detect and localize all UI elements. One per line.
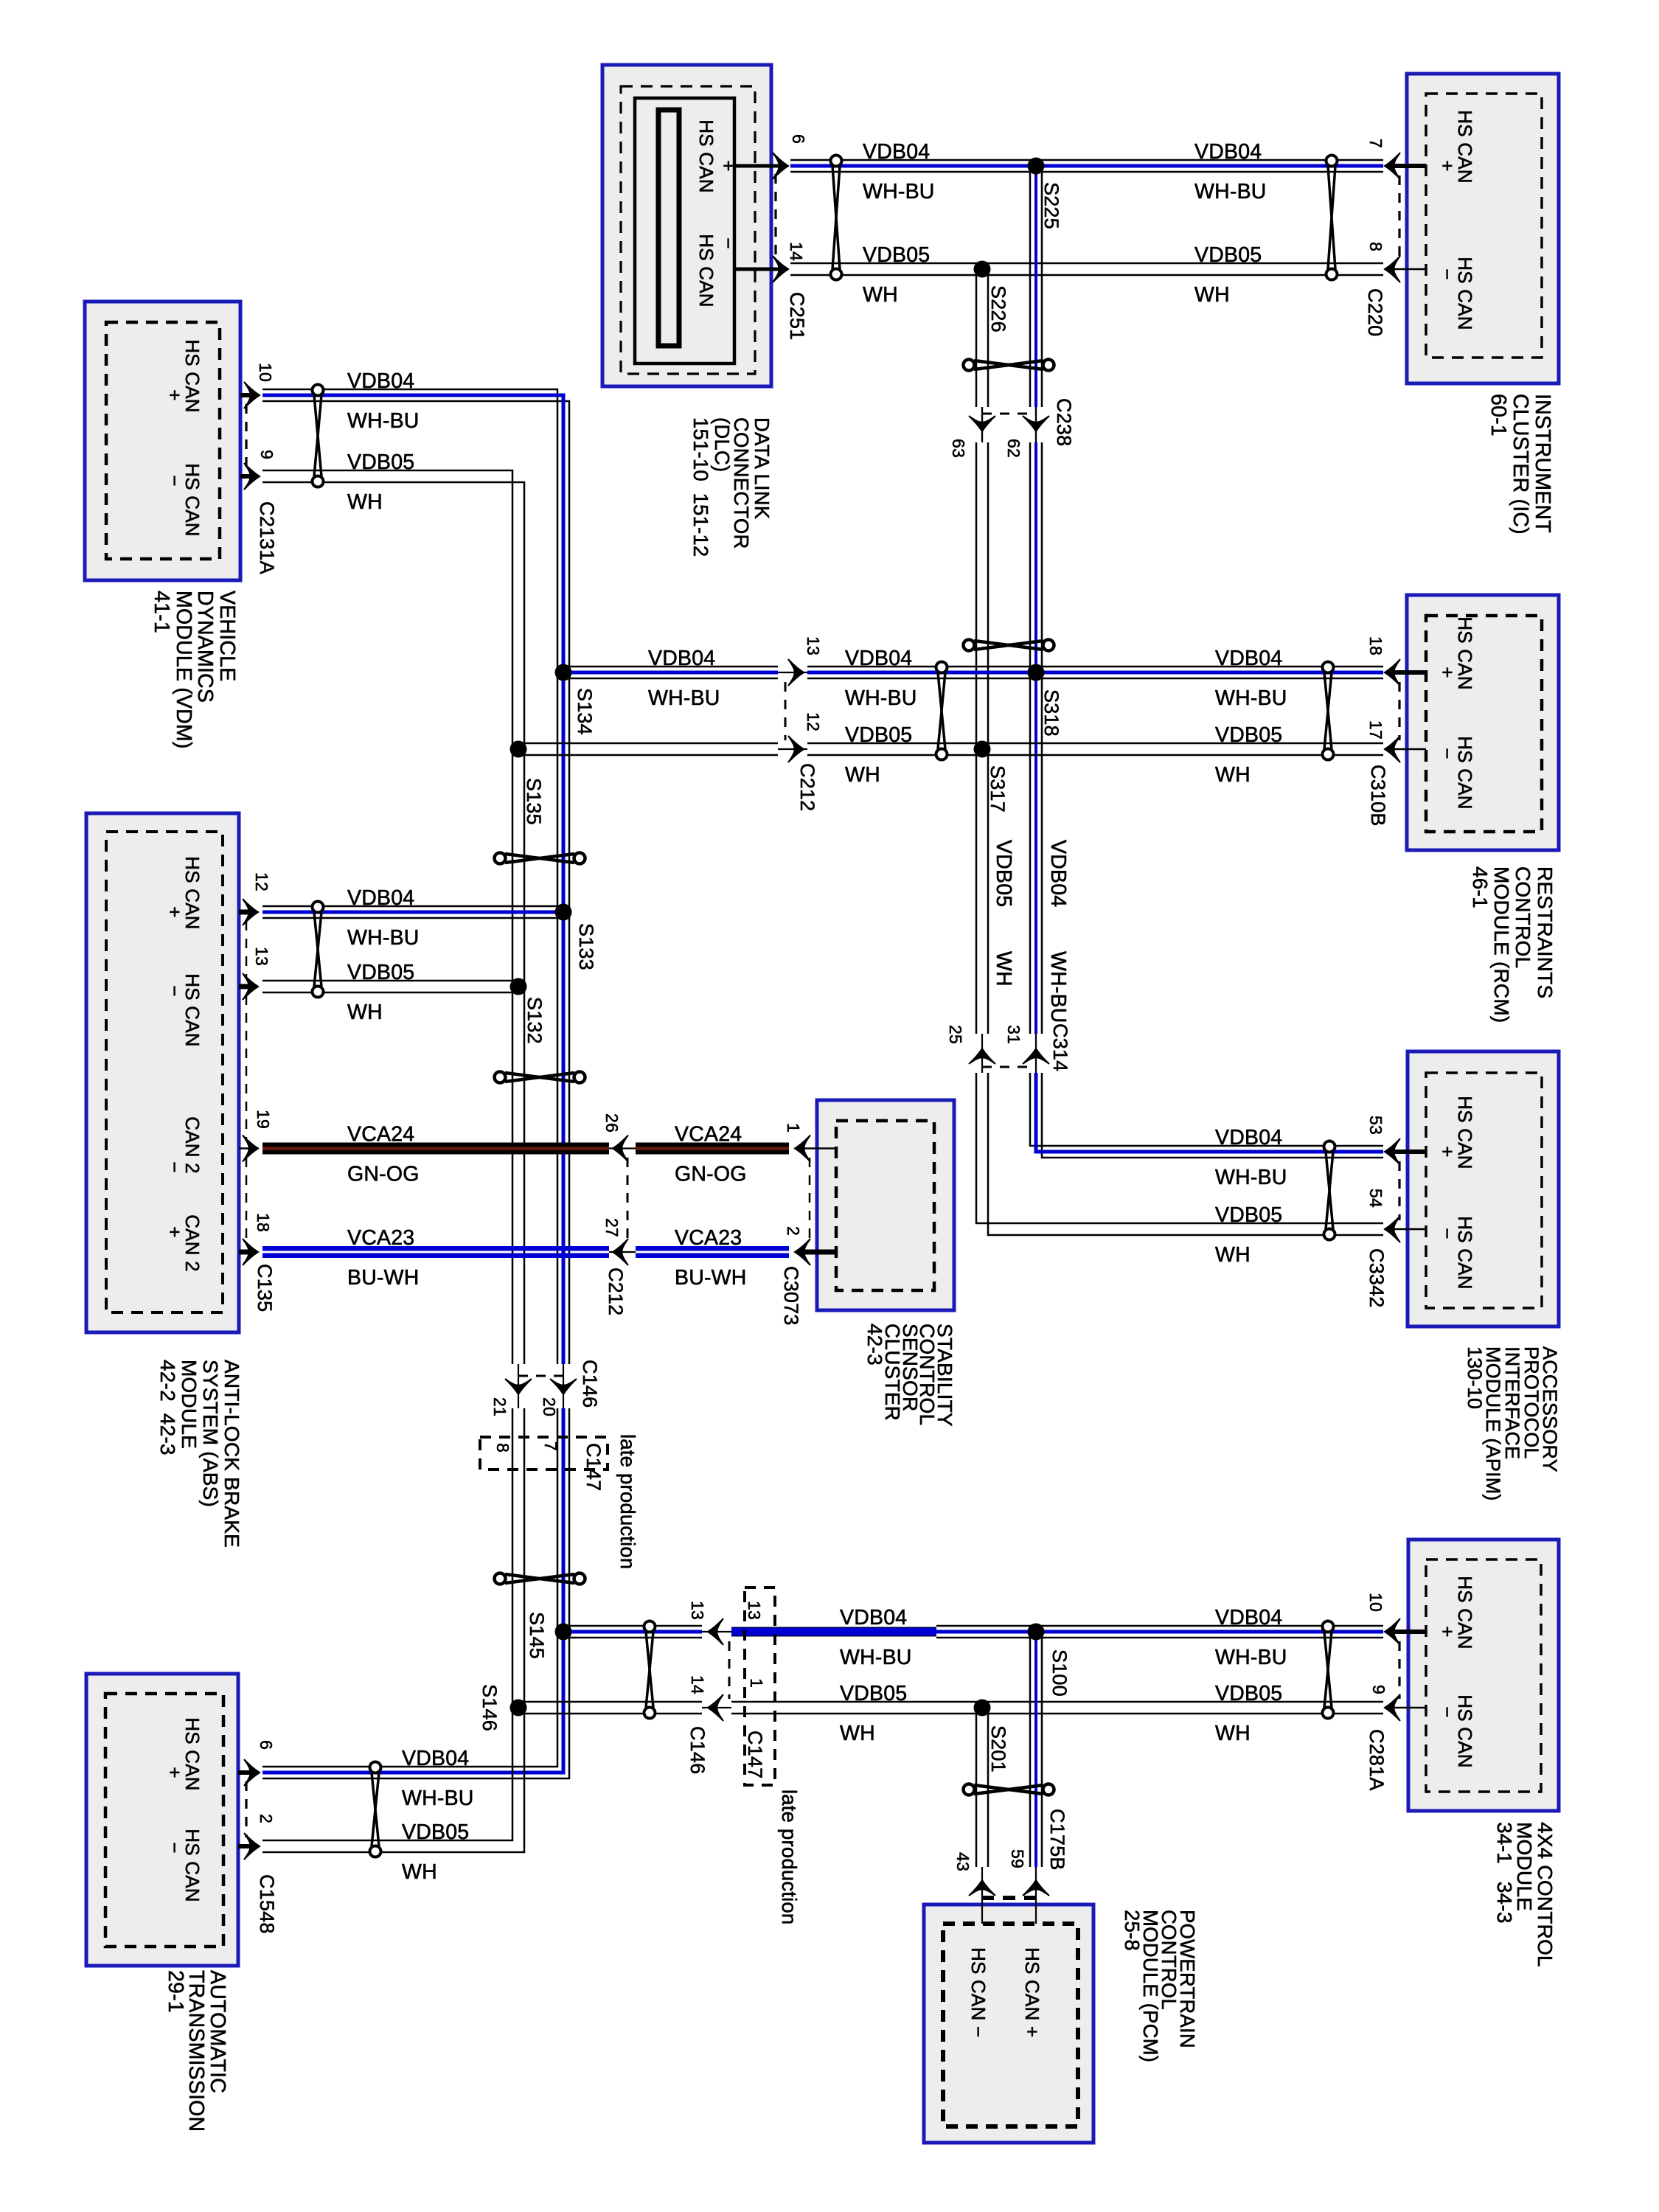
svg-text:C147: C147 — [582, 1443, 605, 1491]
svg-text:GN-OG: GN-OG — [675, 1163, 747, 1186]
svg-text:WH-BU: WH-BU — [845, 686, 917, 710]
svg-text:42-2 42-3: 42-2 42-3 — [156, 1360, 179, 1455]
svg-text:WH: WH — [347, 1001, 383, 1024]
svg-text:S135: S135 — [523, 778, 545, 825]
svg-text:C251: C251 — [786, 292, 808, 340]
svg-text:HS CAN: HS CAN — [181, 463, 204, 536]
svg-text:HS CAN: HS CAN — [181, 1829, 204, 1902]
svg-text:MODULE (VDM): MODULE (VDM) — [172, 591, 195, 749]
svg-text:14: 14 — [787, 242, 806, 261]
svg-text:WH: WH — [1215, 1243, 1251, 1267]
svg-text:S317: S317 — [987, 765, 1009, 813]
svg-text:6: 6 — [789, 134, 808, 144]
svg-text:C147: C147 — [744, 1731, 766, 1778]
svg-text:−: − — [164, 475, 186, 486]
svg-text:10: 10 — [256, 363, 275, 382]
svg-text:+: + — [164, 1767, 186, 1778]
svg-text:S226: S226 — [987, 285, 1009, 333]
svg-text:(DLC): (DLC) — [711, 417, 734, 472]
svg-text:+: + — [1436, 1626, 1458, 1637]
svg-text:+: + — [1436, 1146, 1458, 1157]
svg-text:46-1: 46-1 — [1469, 866, 1492, 908]
svg-text:VDB05: VDB05 — [347, 451, 414, 474]
svg-text:VCA24: VCA24 — [347, 1123, 414, 1147]
svg-text:S134: S134 — [574, 688, 596, 735]
svg-text:18: 18 — [1366, 636, 1385, 655]
svg-text:HS CAN: HS CAN — [695, 119, 717, 192]
svg-text:GN-OG: GN-OG — [347, 1163, 420, 1186]
svg-text:59: 59 — [1008, 1849, 1027, 1868]
svg-text:WH: WH — [863, 283, 898, 307]
svg-text:AUTOMATIC: AUTOMATIC — [206, 1970, 229, 2093]
svg-text:WH-BU: WH-BU — [1215, 1166, 1287, 1189]
svg-text:−: − — [1436, 1228, 1458, 1239]
svg-text:1: 1 — [784, 1123, 803, 1133]
svg-text:S146: S146 — [479, 1684, 501, 1731]
svg-text:VDB04: VDB04 — [402, 1747, 469, 1770]
svg-text:27: 27 — [602, 1218, 622, 1237]
svg-text:HS CAN: HS CAN — [181, 339, 204, 412]
svg-text:C175B: C175B — [1046, 1809, 1068, 1871]
svg-text:13: 13 — [804, 636, 823, 655]
svg-text:S100: S100 — [1048, 1649, 1071, 1697]
svg-text:HS CAN: HS CAN — [1454, 616, 1476, 689]
svg-text:63: 63 — [949, 439, 968, 458]
svg-text:VDB04: VDB04 — [1215, 1126, 1282, 1150]
svg-text:C3342: C3342 — [1366, 1248, 1388, 1308]
svg-text:WH-BU: WH-BU — [402, 1787, 474, 1810]
svg-text:13: 13 — [252, 947, 271, 966]
svg-text:−: − — [717, 237, 740, 248]
svg-text:C3073: C3073 — [780, 1266, 802, 1326]
svg-text:C238: C238 — [1053, 398, 1075, 446]
svg-text:VDB04: VDB04 — [863, 140, 930, 164]
svg-text:18: 18 — [254, 1213, 273, 1232]
svg-text:53: 53 — [1366, 1116, 1385, 1135]
svg-text:13: 13 — [688, 1601, 707, 1620]
svg-text:HS CAN: HS CAN — [1454, 257, 1476, 330]
svg-text:VDB05: VDB05 — [863, 243, 930, 267]
svg-text:MODULE: MODULE — [178, 1360, 201, 1449]
svg-text:WH: WH — [1194, 283, 1230, 307]
svg-text:+: + — [717, 160, 740, 171]
svg-text:25-8: 25-8 — [1121, 1910, 1144, 1951]
svg-text:S145: S145 — [526, 1612, 548, 1659]
svg-text:8: 8 — [1366, 242, 1385, 251]
svg-text:41-1: 41-1 — [150, 591, 173, 633]
svg-text:VDB05: VDB05 — [1215, 723, 1282, 747]
svg-text:HS CAN: HS CAN — [1454, 110, 1476, 183]
svg-text:10: 10 — [1366, 1593, 1385, 1612]
svg-text:VDB05: VDB05 — [347, 961, 414, 984]
svg-text:19: 19 — [254, 1110, 273, 1129]
svg-text:8: 8 — [493, 1443, 512, 1453]
svg-text:WH: WH — [840, 1722, 875, 1745]
svg-text:4X4 CONTROL: 4X4 CONTROL — [1534, 1822, 1557, 1967]
svg-text:VDB04: VDB04 — [1215, 647, 1282, 670]
svg-text:WH-BU: WH-BU — [1215, 1646, 1287, 1669]
svg-text:7: 7 — [541, 1441, 560, 1451]
svg-text:HS CAN: HS CAN — [1454, 1694, 1476, 1767]
svg-text:C314: C314 — [1049, 1023, 1071, 1071]
svg-text:HS CAN: HS CAN — [181, 856, 204, 929]
svg-text:C2131A: C2131A — [256, 501, 278, 574]
svg-text:−: − — [1436, 748, 1458, 759]
svg-text:WH-BU: WH-BU — [347, 926, 420, 950]
svg-text:VDB04: VDB04 — [1215, 1606, 1282, 1630]
svg-text:13: 13 — [745, 1601, 764, 1620]
svg-text:VCA24: VCA24 — [675, 1123, 742, 1147]
svg-text:C310B: C310B — [1367, 765, 1389, 827]
svg-text:+: + — [1436, 667, 1458, 678]
svg-text:−: − — [164, 985, 186, 996]
svg-text:VDB04: VDB04 — [648, 647, 715, 670]
svg-text:VDB04: VDB04 — [1046, 840, 1070, 907]
svg-text:20: 20 — [540, 1397, 559, 1416]
svg-text:WH: WH — [845, 763, 880, 787]
svg-text:WH-BU: WH-BU — [863, 180, 935, 204]
svg-text:DYNAMICS: DYNAMICS — [193, 591, 217, 703]
svg-text:29-1: 29-1 — [164, 1970, 187, 2013]
svg-text:WH-BU: WH-BU — [840, 1646, 912, 1669]
svg-text:S318: S318 — [1040, 689, 1062, 737]
svg-text:S132: S132 — [524, 997, 546, 1044]
svg-text:WH: WH — [992, 951, 1015, 987]
svg-text:12: 12 — [804, 712, 823, 731]
svg-text:21: 21 — [490, 1397, 509, 1416]
svg-text:VDB05: VDB05 — [840, 1682, 907, 1705]
svg-text:CONTROL: CONTROL — [1512, 866, 1534, 968]
svg-text:VCA23: VCA23 — [675, 1226, 742, 1250]
svg-text:34-1 34-3: 34-1 34-3 — [1493, 1822, 1516, 1924]
svg-text:−: − — [1436, 1706, 1458, 1717]
svg-text:VDB05: VDB05 — [992, 840, 1015, 907]
svg-text:54: 54 — [1366, 1189, 1385, 1208]
svg-text:VCA23: VCA23 — [347, 1226, 414, 1250]
svg-text:43: 43 — [953, 1852, 973, 1871]
svg-text:WH: WH — [347, 490, 383, 514]
svg-text:2: 2 — [784, 1226, 803, 1236]
svg-text:14: 14 — [688, 1675, 707, 1694]
svg-text:+: + — [164, 1226, 186, 1237]
svg-text:130-10: 130-10 — [1464, 1346, 1486, 1409]
svg-text:6: 6 — [257, 1740, 276, 1750]
svg-text:WH-BU: WH-BU — [1046, 951, 1070, 1023]
svg-text:7: 7 — [1366, 139, 1385, 148]
svg-text:HS CAN: HS CAN — [181, 973, 204, 1046]
svg-text:VDB04: VDB04 — [347, 886, 414, 910]
svg-text:S133: S133 — [575, 923, 597, 970]
svg-text:+: + — [164, 389, 186, 400]
svg-text:WH-BU: WH-BU — [1194, 180, 1267, 204]
svg-text:31: 31 — [1004, 1025, 1023, 1044]
svg-text:VEHICLE: VEHICLE — [215, 591, 239, 681]
svg-text:HS CAN −: HS CAN − — [967, 1947, 990, 2037]
svg-text:SYSTEM (ABS): SYSTEM (ABS) — [199, 1360, 222, 1507]
svg-text:HS CAN: HS CAN — [1454, 1096, 1476, 1169]
svg-text:12: 12 — [252, 872, 271, 891]
svg-text:VDB05: VDB05 — [1194, 243, 1262, 267]
svg-text:151-10 151-12: 151-10 151-12 — [689, 417, 712, 557]
svg-text:late production: late production — [778, 1790, 801, 1924]
svg-text:+: + — [164, 906, 186, 917]
svg-text:C146: C146 — [579, 1360, 601, 1408]
svg-text:MODULE (RCM): MODULE (RCM) — [1490, 866, 1513, 1023]
svg-text:−: − — [164, 1161, 186, 1172]
svg-text:−: − — [1436, 268, 1458, 279]
svg-text:WH: WH — [402, 1860, 437, 1884]
svg-text:VDB04: VDB04 — [1194, 140, 1262, 164]
svg-text:VDB04: VDB04 — [840, 1606, 907, 1630]
svg-text:RESTRAINTS: RESTRAINTS — [1534, 866, 1557, 998]
svg-text:VDB04: VDB04 — [347, 369, 414, 393]
svg-text:26: 26 — [602, 1113, 622, 1133]
svg-text:−: − — [164, 1842, 186, 1853]
svg-text:VDB05: VDB05 — [845, 723, 912, 747]
svg-text:WH-BU: WH-BU — [347, 409, 420, 433]
svg-text:C212: C212 — [605, 1267, 627, 1315]
svg-text:HS CAN: HS CAN — [1454, 1216, 1476, 1289]
svg-text:WH: WH — [1215, 1722, 1251, 1745]
svg-text:VDB05: VDB05 — [1215, 1682, 1282, 1705]
svg-text:C220: C220 — [1364, 288, 1386, 336]
svg-text:HS CAN +: HS CAN + — [1021, 1947, 1043, 2037]
svg-text:CLUSTER (IC): CLUSTER (IC) — [1509, 394, 1532, 535]
svg-text:2: 2 — [257, 1814, 276, 1823]
svg-text:C135: C135 — [254, 1264, 276, 1312]
svg-text:HS CAN: HS CAN — [695, 234, 717, 307]
svg-text:HS CAN: HS CAN — [1454, 1576, 1476, 1649]
svg-text:62: 62 — [1004, 439, 1023, 458]
svg-text:S225: S225 — [1040, 182, 1062, 229]
svg-text:WH: WH — [1215, 763, 1251, 787]
svg-text:1: 1 — [747, 1678, 766, 1688]
svg-text:C1548: C1548 — [256, 1874, 278, 1934]
svg-text:C212: C212 — [796, 763, 818, 811]
svg-text:C281A: C281A — [1366, 1729, 1388, 1791]
svg-text:C146: C146 — [686, 1726, 709, 1774]
svg-text:HS CAN: HS CAN — [1454, 736, 1476, 809]
svg-text:INSTRUMENT: INSTRUMENT — [1531, 394, 1554, 533]
svg-text:25: 25 — [946, 1025, 965, 1044]
svg-text:S201: S201 — [987, 1725, 1009, 1773]
svg-text:WH-BU: WH-BU — [1215, 686, 1287, 710]
svg-text:42-3: 42-3 — [863, 1324, 886, 1366]
svg-text:BU-WH: BU-WH — [675, 1266, 747, 1290]
svg-text:VDB05: VDB05 — [1215, 1203, 1282, 1227]
svg-text:17: 17 — [1366, 720, 1385, 740]
svg-text:VDB05: VDB05 — [402, 1820, 469, 1844]
svg-text:late production: late production — [616, 1434, 639, 1569]
svg-text:9: 9 — [1369, 1685, 1388, 1694]
svg-text:VDB04: VDB04 — [845, 647, 912, 670]
svg-text:+: + — [1436, 160, 1458, 171]
svg-text:CAN 2: CAN 2 — [181, 1214, 204, 1272]
svg-text:HS CAN: HS CAN — [181, 1717, 204, 1790]
svg-text:DATA LINK: DATA LINK — [751, 417, 773, 520]
svg-text:9: 9 — [257, 450, 276, 459]
svg-text:WH-BU: WH-BU — [648, 686, 720, 710]
svg-text:ANTI-LOCK BRAKE: ANTI-LOCK BRAKE — [220, 1360, 243, 1548]
svg-text:BU-WH: BU-WH — [347, 1266, 420, 1290]
svg-text:60-1: 60-1 — [1486, 394, 1510, 437]
